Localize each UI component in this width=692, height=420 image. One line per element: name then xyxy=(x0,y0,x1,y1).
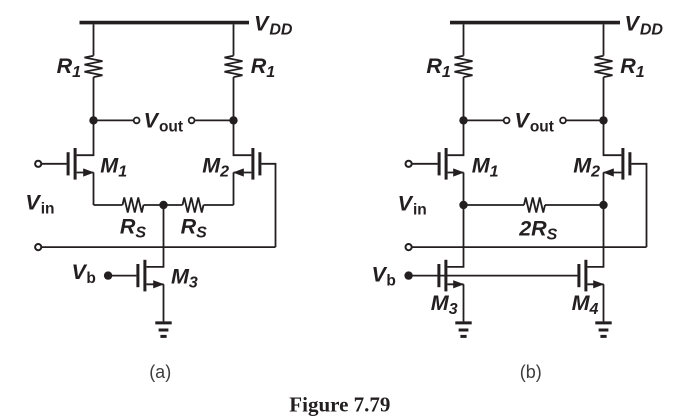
node: left source junction (b) xyxy=(459,201,467,209)
svg-text:RS: RS xyxy=(120,214,147,241)
transistor M3 (b) xyxy=(437,260,464,292)
svg-text:M3: M3 xyxy=(431,291,458,318)
wire: M2 source down to source node (b) xyxy=(603,173,605,206)
wire: tail node to RS2 (a) xyxy=(164,204,183,206)
wire: R1 right to Vout node (b) xyxy=(603,77,605,120)
wire: M2 source down to RS row (a) xyxy=(233,173,235,206)
VDD rail (a) xyxy=(80,21,250,25)
wire: left source to 2RS (b) xyxy=(464,204,525,206)
wire: rail to R1 right (a) xyxy=(233,24,235,55)
ground (a) xyxy=(155,323,171,337)
terminal: Vin- (a) xyxy=(35,244,41,250)
svg-text:R1: R1 xyxy=(426,54,451,81)
resistor R1 right (a) xyxy=(225,56,243,77)
wire: M2 gate to right vertical (a) xyxy=(261,164,275,247)
ground under M3 (b) xyxy=(455,323,471,337)
resistor R1 left (b) xyxy=(455,56,473,77)
VDD rail (b) xyxy=(450,21,620,25)
node: right source junction (b) xyxy=(599,201,607,209)
wire: Vout node to M2 drain (a) xyxy=(234,120,252,155)
wire: Vin- terminal to M2 gate vertical (a) xyxy=(42,246,276,248)
svg-text:VDD: VDD xyxy=(254,12,293,39)
terminal: Vin- (b) xyxy=(406,244,412,250)
svg-text:M1: M1 xyxy=(100,153,127,180)
svg-text:M4: M4 xyxy=(572,291,599,318)
ground under M4 (b) xyxy=(595,323,611,337)
wire: RS1 to tail node (a) xyxy=(144,204,164,206)
wire: R1 left to Vout node (a) xyxy=(93,77,95,120)
svg-text:M2: M2 xyxy=(573,153,600,180)
wire: rail to R1 left (b) xyxy=(463,24,465,55)
transistor M2 (a) xyxy=(233,148,262,180)
wire: M1 source to RS1 (a) xyxy=(94,204,123,206)
terminal: Vout left (a) xyxy=(134,118,140,124)
node: left drain junction (b) xyxy=(459,116,467,124)
resistor 2RS (b) xyxy=(524,198,545,213)
wire: M1 source down to RS row (a) xyxy=(93,173,95,206)
svg-text:R1: R1 xyxy=(620,54,645,81)
transistor M3 (a) xyxy=(136,260,164,292)
resistor R1 right (b) xyxy=(595,56,613,77)
terminal: Vout right (a) xyxy=(189,118,195,124)
transistor M1 (a) xyxy=(67,148,95,180)
wire: Vin+ terminal to M1 gate (b) xyxy=(412,163,438,165)
wire: left source node down to M3 drain (b) xyxy=(447,205,463,267)
node: right drain junction (a) xyxy=(229,116,237,124)
wire: R1 left to Vout node (b) xyxy=(463,77,465,120)
wire: left drain node to Vout terminal (b) xyxy=(464,119,504,121)
node: Vb terminal dot (b) xyxy=(404,271,412,279)
svg-text:R1: R1 xyxy=(251,54,276,81)
wire: M1 source down to source node (b) xyxy=(463,173,465,206)
wire: M4 source to ground (b) xyxy=(603,284,605,321)
terminal: Vout right (b) xyxy=(560,118,566,124)
svg-text:VDD: VDD xyxy=(625,12,664,39)
transistor M1 (b) xyxy=(438,148,465,180)
node: right drain junction (b) xyxy=(599,116,607,124)
node: Vb terminal dot (a) xyxy=(104,271,112,279)
svg-text:(a): (a) xyxy=(149,362,171,382)
svg-text:2RS: 2RS xyxy=(518,217,557,244)
svg-text:Vout: Vout xyxy=(515,109,554,136)
svg-text:RS: RS xyxy=(181,214,208,241)
wire: M3 source to ground (b) xyxy=(463,284,465,321)
wire: M2 gate to right vertical (b) xyxy=(631,164,646,247)
wire: Vout node to M1 drain (b) xyxy=(448,120,464,155)
wire: Vb to M3 gate (a) xyxy=(108,275,136,277)
wire: right drain node to Vout terminal (b) xyxy=(566,119,603,121)
svg-text:R1: R1 xyxy=(57,54,82,81)
svg-text:Vb: Vb xyxy=(72,260,96,287)
wire: M3 source to ground (a) xyxy=(163,284,165,321)
wire: 2RS to right source (b) xyxy=(545,204,604,206)
svg-text:M2: M2 xyxy=(202,153,229,180)
transistor M2 (b) xyxy=(603,148,632,180)
resistor RS right (a) xyxy=(183,198,204,213)
svg-text:(b): (b) xyxy=(520,362,542,382)
node: left drain junction (a) xyxy=(89,116,97,124)
terminal: Vin+ (a) xyxy=(35,161,41,167)
wire: rail to R1 left (a) xyxy=(93,24,95,55)
node: tail junction (a) xyxy=(159,201,167,209)
wire: rail to R1 right (b) xyxy=(603,24,605,55)
svg-text:Vout: Vout xyxy=(144,109,183,136)
terminal: Vin+ (b) xyxy=(406,161,412,167)
svg-text:Vin: Vin xyxy=(25,190,54,217)
wire: R1 right to Vout node (a) xyxy=(233,77,235,120)
resistor RS left (a) xyxy=(123,198,144,213)
terminal: Vout left (b) xyxy=(504,118,510,124)
wire: right drain node to Vout terminal (a) xyxy=(195,119,233,121)
wire: left drain node to Vout terminal (a) xyxy=(94,119,134,121)
wire: right source node down to M4 drain (b) xyxy=(587,205,603,267)
svg-text:Vin: Vin xyxy=(398,192,427,219)
svg-text:Vb: Vb xyxy=(372,263,396,290)
svg-text:M1: M1 xyxy=(472,153,499,180)
wire: RS2 to M2 source (a) xyxy=(204,204,234,206)
wire: Vout node to M1 drain (a) xyxy=(77,120,94,155)
wire: tail node down to M3 drain (a) xyxy=(146,205,163,267)
resistor R1 left (a) xyxy=(85,56,103,77)
wire: Vout node to M2 drain (b) xyxy=(604,120,622,155)
transistor M4 (b) xyxy=(577,260,604,292)
wire: Vin- terminal to M2 gate vertical (b) xyxy=(412,246,646,248)
wire: Vb to M3 and M4 gates (b) xyxy=(409,275,578,277)
wire: Vin+ terminal to M1 gate (a) xyxy=(42,163,67,165)
svg-text:M3: M3 xyxy=(171,264,198,291)
svg-text:Figure 7.79: Figure 7.79 xyxy=(289,393,390,417)
